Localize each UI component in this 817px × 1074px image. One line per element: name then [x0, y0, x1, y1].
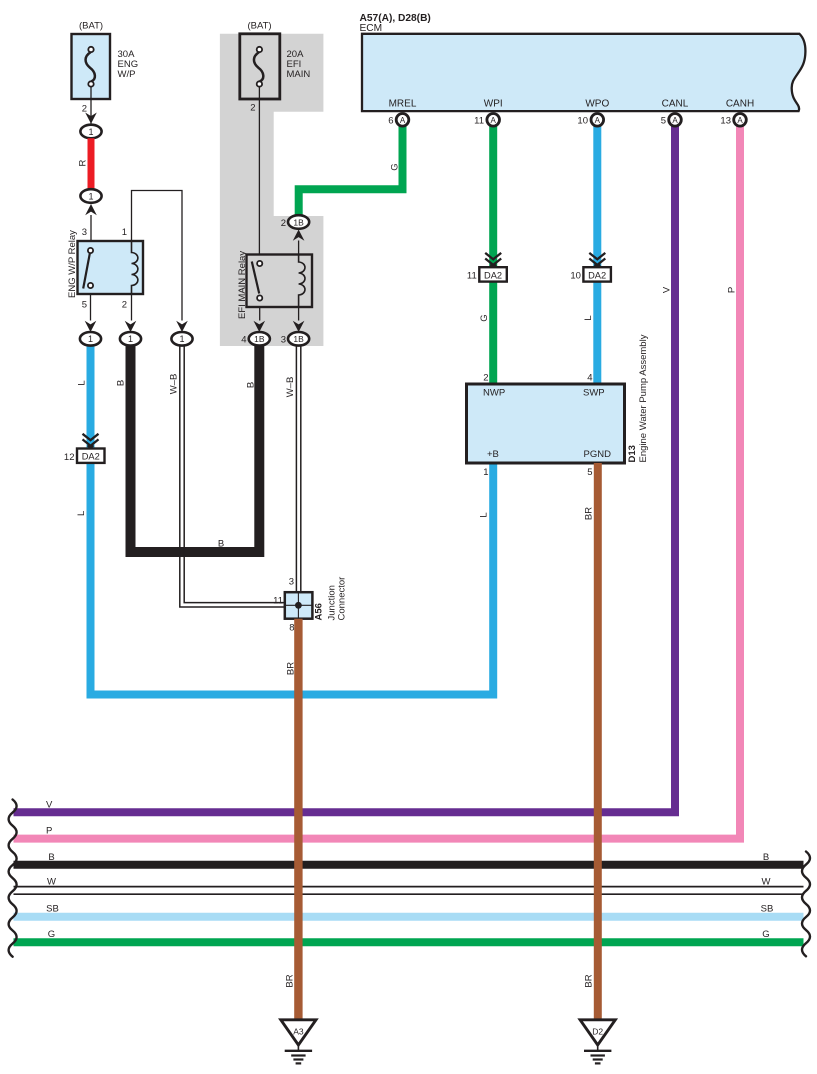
svg-text:ENG W/P Relay: ENG W/P Relay: [67, 230, 78, 298]
svg-text:R: R: [78, 159, 89, 166]
svg-text:(BAT): (BAT): [79, 21, 103, 32]
svg-text:WPO: WPO: [585, 99, 609, 110]
arrow out of connector 1 upward: [85, 204, 97, 215]
wire connector to ENG W/P relay pin 3: [90, 215, 92, 241]
wire G from ECM pin MREL to EFI MAIN relay connector 1B-2: [299, 122, 403, 216]
pin 10 label DA2: [570, 270, 581, 281]
wire label B (bottom of U): [218, 539, 224, 550]
wire W-B from connector 1 to junction A56 pin 11: [180, 346, 285, 608]
svg-text:MREL: MREL: [389, 99, 417, 110]
svg-text:CANL: CANL: [662, 99, 689, 110]
svg-text:B: B: [48, 852, 54, 863]
right break squiggle: [802, 852, 810, 957]
ECM A57(A) D28(B) box: [360, 13, 806, 111]
connector 1 (relay side): [80, 189, 101, 203]
wire ENG W/P relay pin 5 down: [90, 294, 92, 321]
svg-text:L: L: [76, 511, 87, 516]
arrow up into connector 1B-2: [293, 230, 305, 241]
svg-text:1B: 1B: [293, 334, 304, 344]
svg-text:12: 12: [64, 452, 75, 463]
svg-text:L: L: [479, 512, 490, 517]
svg-text:1: 1: [179, 334, 184, 344]
pin 3 label ENG W/P relay: [82, 227, 87, 238]
svg-text:W/P: W/P: [118, 69, 136, 80]
wire label BR (PGND upper): [584, 507, 595, 520]
connector 1 (pin 5): [80, 332, 101, 346]
connector DA2 10: [583, 267, 611, 281]
label (BAT) left: [79, 21, 103, 32]
pin 11 label junction A56: [273, 596, 283, 607]
svg-text:11: 11: [467, 270, 477, 281]
svg-text:Engine Water Pump Assembly: Engine Water Pump Assembly: [638, 334, 649, 462]
bus wire B black: [14, 861, 804, 869]
svg-text:5: 5: [587, 467, 592, 478]
wire EFI relay pin 4 down: [259, 307, 261, 321]
wire label W-B (right): [285, 377, 296, 398]
bus label B left: [48, 852, 54, 863]
svg-text:G: G: [390, 163, 401, 170]
wire label B (right): [246, 382, 257, 388]
wire label G (MREL wire): [390, 163, 401, 170]
arrow into connector ENG W/P pin 5: [85, 321, 97, 332]
svg-text:ECM: ECM: [360, 23, 383, 34]
bus label B right: [763, 852, 769, 863]
pin 2 label fuse 20A: [250, 103, 255, 114]
wire L from relay pin 5 to water pump +B: [91, 346, 494, 695]
svg-text:SB: SB: [761, 904, 774, 915]
junction connector A56 box: [285, 592, 313, 619]
svg-text:1: 1: [483, 467, 488, 478]
svg-text:CANH: CANH: [726, 99, 754, 110]
bus label G right: [762, 929, 769, 940]
fuse 20A EFI MAIN: [240, 34, 280, 99]
svg-text:G: G: [48, 929, 55, 940]
wire label BR (A3 lower): [285, 974, 296, 987]
relay EFI MAIN box: [247, 255, 313, 308]
arrow into connector 1B-4: [254, 321, 266, 332]
svg-text:V: V: [46, 799, 53, 810]
svg-text:NWP: NWP: [483, 388, 505, 399]
svg-text:A: A: [595, 116, 601, 125]
wire EFI relay pin 3 down: [298, 307, 300, 321]
svg-text:D2: D2: [592, 1026, 603, 1036]
svg-text:+B: +B: [487, 449, 499, 460]
wire L from ECM pin WPO to water pump SWP: [593, 122, 601, 384]
svg-text:W–B: W–B: [169, 374, 180, 395]
pin 5 CANL connector A: [661, 114, 682, 127]
pin 5 label water pump PGND: [587, 467, 592, 478]
pin 4 label water pump SWP: [587, 373, 592, 384]
svg-text:P: P: [46, 826, 52, 837]
svg-text:W: W: [47, 876, 56, 887]
fuse 20A value label: [287, 49, 311, 80]
svg-text:2: 2: [281, 218, 286, 229]
left break squiggle: [9, 800, 17, 957]
connector DA2 11: [479, 267, 507, 281]
svg-text:L: L: [583, 315, 594, 320]
bus label W left: [47, 876, 56, 887]
svg-text:MAIN: MAIN: [287, 69, 311, 80]
svg-text:P: P: [727, 287, 738, 293]
svg-text:3: 3: [289, 577, 294, 588]
bus label W right: [762, 876, 771, 887]
svg-text:2: 2: [122, 300, 127, 311]
connector DA2 12: [77, 449, 105, 463]
svg-text:A56: A56: [314, 603, 325, 620]
svg-text:BR: BR: [285, 974, 296, 987]
wire R red: [88, 138, 95, 189]
svg-text:1: 1: [88, 334, 93, 344]
connector 1B-2 (EFI relay coil feed): [288, 215, 309, 229]
pin 2 label EFI relay coil: [281, 218, 286, 229]
wire BR from water pump PGND to ground D2: [594, 463, 602, 1021]
ECM pin label CANH: [726, 99, 754, 110]
wire ENG W/P relay pin 1 loop to connector 1 (W-B branch): [132, 191, 183, 321]
svg-text:4: 4: [241, 335, 246, 346]
chevron arrow above DA2-12: [83, 434, 99, 448]
wire label L (below DA2): [76, 511, 87, 516]
svg-text:3: 3: [281, 335, 286, 346]
shaded background for EFI MAIN circuit: [220, 34, 324, 346]
svg-text:SB: SB: [46, 904, 59, 915]
wire label B (left): [116, 380, 127, 386]
pin 3 label EFI relay: [281, 335, 286, 346]
svg-text:10: 10: [577, 116, 588, 127]
pin 3 label junction A56: [289, 577, 294, 588]
svg-text:1B: 1B: [293, 217, 304, 227]
svg-text:DA2: DA2: [82, 452, 100, 462]
svg-text:G: G: [479, 314, 490, 321]
svg-text:BR: BR: [286, 662, 297, 675]
ground D2: [580, 1020, 615, 1064]
svg-text:10: 10: [570, 270, 581, 281]
svg-text:5: 5: [661, 116, 666, 127]
svg-text:A: A: [737, 116, 743, 125]
wire fuse 30A to connector: [90, 87, 92, 125]
water pump name label D13: [627, 334, 649, 462]
arrow into connector 1B-3: [293, 321, 305, 332]
svg-text:DA2: DA2: [588, 270, 606, 280]
water pump assembly D13 box: [467, 384, 625, 463]
svg-text:A: A: [672, 116, 678, 125]
svg-text:1: 1: [122, 227, 127, 238]
svg-text:8: 8: [289, 623, 294, 634]
svg-text:1: 1: [88, 191, 93, 201]
wire label P: [727, 287, 738, 293]
bus wire W white (outlined): [14, 887, 804, 895]
pin 11 WPI connector A: [474, 114, 499, 127]
svg-text:1: 1: [88, 127, 93, 137]
wire W-B from EFI relay pin 3 to junction A56 pin 3: [296, 346, 300, 593]
svg-text:DA2: DA2: [484, 270, 502, 280]
svg-text:EFI MAIN Relay: EFI MAIN Relay: [237, 251, 248, 319]
pin 4 label EFI relay: [241, 335, 246, 346]
wire label L (pump +B side): [479, 512, 490, 517]
svg-text:1: 1: [128, 334, 133, 344]
wire BR from junction A56 pin 8 to ground A3: [294, 619, 302, 1021]
svg-text:A: A: [491, 116, 497, 125]
pin 2 label ENG W/P relay: [122, 300, 127, 311]
svg-text:Connector: Connector: [337, 577, 348, 621]
relay EFI MAIN switch contact: [252, 261, 263, 301]
svg-text:V: V: [662, 286, 673, 293]
svg-text:W–B: W–B: [285, 377, 296, 398]
relay ENG W/P switch contact: [83, 248, 93, 289]
svg-text:5: 5: [82, 300, 87, 311]
ECM pin label WPO: [585, 99, 609, 110]
svg-text:2: 2: [250, 103, 255, 114]
wire V from ECM pin CANL to left edge bus: [14, 122, 676, 812]
bus wire G green: [14, 938, 804, 946]
arrow into connector W-B branch: [176, 321, 188, 332]
connector 1 (pin 2): [120, 332, 141, 346]
svg-text:B: B: [763, 852, 769, 863]
ECM pin label MREL: [389, 99, 417, 110]
pin 12 label DA2: [64, 452, 75, 463]
svg-text:A3: A3: [293, 1026, 304, 1036]
relay ENG W/P coil: [132, 241, 138, 294]
pin 13 CANH connector A: [720, 114, 746, 127]
label (BAT) right: [247, 21, 271, 32]
svg-text:11: 11: [474, 116, 484, 127]
wire label R: [78, 159, 89, 166]
pin 1 label water pump +B: [483, 467, 488, 478]
svg-text:(BAT): (BAT): [247, 21, 271, 32]
chevron arrow above DA2-11: [485, 253, 501, 267]
svg-text:WPI: WPI: [484, 99, 503, 110]
svg-text:B: B: [116, 380, 127, 386]
svg-text:2: 2: [483, 373, 488, 384]
ECM pin label CANL: [662, 99, 689, 110]
wire P from ECM pin CANH to left edge bus: [14, 122, 741, 839]
arrow into connector ENG W/P pin 2: [125, 321, 137, 332]
relay EFI MAIN name label: [237, 251, 248, 319]
fuse 30A ENG W/P: [72, 34, 111, 99]
bus wire SB sky blue: [14, 913, 804, 921]
fuse 30A value label: [118, 49, 139, 80]
svg-text:PGND: PGND: [584, 449, 612, 460]
pin 5 label ENG W/P relay: [82, 300, 87, 311]
wire B U-shape relay pin 2 to EFI relay pin 4: [131, 346, 260, 553]
bus label V left: [46, 799, 53, 810]
svg-text:6: 6: [388, 116, 393, 127]
svg-text:BR: BR: [584, 974, 595, 987]
pin 2 label water pump NWP: [483, 373, 488, 384]
wire label L (WPO wire): [583, 315, 594, 320]
svg-text:4: 4: [587, 373, 592, 384]
wire label V: [662, 286, 673, 293]
relay EFI MAIN coil: [299, 255, 305, 308]
svg-text:3: 3: [82, 227, 87, 238]
svg-text:G: G: [762, 929, 769, 940]
wire label L (upper): [77, 380, 88, 385]
arrow into connector 1 (top): [85, 113, 97, 124]
connector 1B-4: [249, 332, 270, 346]
bus label SB left: [46, 904, 59, 915]
pin 2 label fuse 30A: [82, 104, 87, 115]
relay ENG W/P box: [78, 241, 144, 294]
bus label G left: [48, 929, 55, 940]
bus label P left: [46, 826, 52, 837]
wire connector 1B-2 to EFI relay coil: [298, 241, 300, 255]
svg-text:13: 13: [720, 116, 731, 127]
wire label W-B (left): [169, 374, 180, 395]
pin 1 label ENG W/P relay: [122, 227, 127, 238]
svg-text:SWP: SWP: [583, 388, 605, 399]
svg-text:D13: D13: [627, 445, 638, 462]
svg-text:B: B: [218, 539, 224, 550]
connector 1B-3: [288, 332, 309, 346]
svg-text:2: 2: [82, 104, 87, 115]
wire fuse 20A to EFI relay switch: [258, 87, 260, 255]
svg-text:A: A: [400, 116, 406, 125]
bus label SB right: [761, 904, 774, 915]
svg-text:W: W: [762, 876, 771, 887]
connector 1 (W-B branch): [171, 332, 192, 346]
ground A3: [281, 1020, 316, 1064]
junction A56 name label: [314, 577, 348, 621]
svg-text:L: L: [77, 380, 88, 385]
wire label BR (A56 upper): [286, 662, 297, 675]
svg-text:B: B: [246, 382, 257, 388]
pin 10 WPO connector A: [577, 114, 603, 127]
pin 6 MREL connector A: [388, 114, 409, 127]
wire label BR (D2 lower): [584, 974, 595, 987]
ECM pin label WPI: [484, 99, 503, 110]
chevron arrow above DA2-10: [589, 253, 605, 267]
svg-text:11: 11: [273, 596, 283, 607]
svg-text:BR: BR: [584, 507, 595, 520]
wire ENG W/P relay pin 2 down: [131, 294, 133, 321]
pin 11 label DA2: [467, 270, 477, 281]
connector 1 (fuse side): [80, 125, 101, 139]
wire G from ECM pin WPI to water pump NWP: [489, 122, 497, 384]
svg-text:1B: 1B: [254, 334, 265, 344]
pin 8 label junction A56: [289, 623, 294, 634]
wire label G (WPI wire): [479, 314, 490, 321]
relay ENG W/P name label: [67, 230, 78, 298]
